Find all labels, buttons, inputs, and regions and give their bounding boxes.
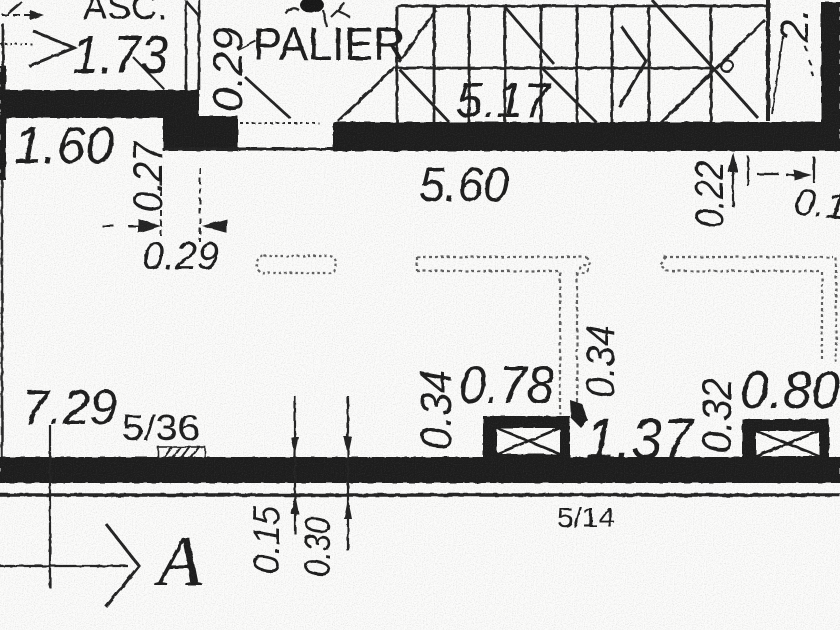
dimension 0.29 line and arrows <box>102 219 227 233</box>
door dotted line <box>240 122 319 124</box>
dimension 0.22 arrow <box>728 152 738 207</box>
wire line below bottom wall <box>0 493 840 497</box>
partition T bar <box>417 257 589 273</box>
wall left edge stub <box>0 66 6 180</box>
dimension chevron 1.73 <box>29 31 74 66</box>
column box B1 <box>483 416 570 458</box>
vent hatch box 5/36 <box>158 447 205 459</box>
leader under 1.73 <box>133 57 164 89</box>
stair grid <box>397 6 768 122</box>
stair diagonal D3 <box>542 68 596 122</box>
palier leader tilde <box>238 41 256 50</box>
dimension arrow top-left small <box>2 10 44 20</box>
corner mark top-left <box>8 2 22 14</box>
palier diagonal left <box>245 77 290 118</box>
leader for 2. <box>772 36 783 114</box>
dimension 0.30 line with arrows <box>344 396 352 551</box>
wall W4 right vertical <box>821 2 840 151</box>
section line A <box>0 524 139 607</box>
node elevator shaft lines <box>186 0 199 90</box>
partition dotted small rect <box>257 256 336 273</box>
palier diagonal right <box>338 67 395 121</box>
partition right room <box>660 257 836 362</box>
column box B2 <box>742 419 829 458</box>
dimension 0.1 ticks and arrows <box>748 156 814 186</box>
stair X diagonal b <box>661 20 765 123</box>
partition T stem <box>560 272 577 414</box>
tick top-left vertical <box>2 24 5 68</box>
wall W3 top wall right of door <box>333 122 840 151</box>
dimension 0.15 line with arrows <box>291 396 299 534</box>
stair right edge <box>766 0 770 121</box>
ink blob mark <box>286 0 350 27</box>
stair diagonal D4 <box>400 70 449 122</box>
wall W1 top-left horizontal <box>0 90 199 118</box>
stair diagonal D1 <box>399 10 436 62</box>
stair diagonal D2 <box>505 7 554 64</box>
stair small circle <box>721 60 733 72</box>
stair X diagonal a <box>652 0 758 118</box>
wire under-wall thin line <box>162 148 333 151</box>
junction blob <box>570 400 588 428</box>
dimension 7.29 vertical line <box>49 425 51 588</box>
wall W2 step block <box>163 116 238 151</box>
wall W5 bottom <box>0 457 840 483</box>
dimension leader dotted <box>0 43 33 45</box>
dotted leader 2. <box>805 46 813 76</box>
stair chevron <box>619 26 646 107</box>
dimension 0.29 extension lines <box>161 168 200 242</box>
wire left edge vertical line <box>1 98 4 457</box>
